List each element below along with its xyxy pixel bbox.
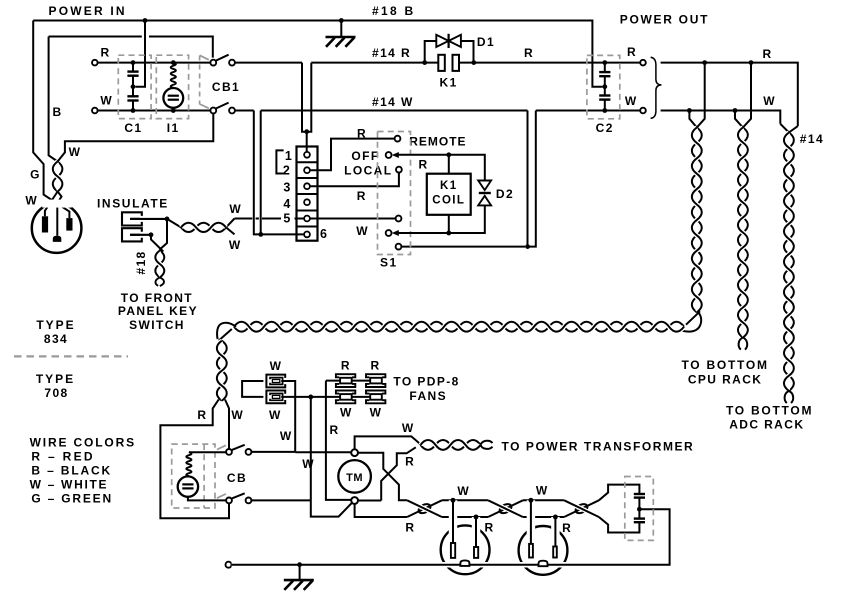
wire #14R drop loop to terminal 1 — [302, 63, 311, 132]
wire W to outlet2 — [523, 499, 564, 501]
svg-text:D2: D2 — [496, 187, 514, 201]
svg-text:#14 R: #14 R — [372, 46, 411, 60]
twisted pair down to key switch — [151, 219, 167, 253]
disconnect lug lower — [122, 228, 142, 241]
wire ground bus — [232, 562, 670, 568]
TM bottom terminal — [351, 497, 358, 504]
twisted pair to CB (drop) — [689, 63, 704, 128]
svg-text:W: W — [280, 429, 293, 443]
svg-text:G – GREEN: G – GREEN — [31, 491, 113, 505]
svg-text:R: R — [371, 359, 381, 373]
wire between bottom connectors — [352, 396, 370, 398]
wire R out bus — [661, 63, 798, 127]
svg-text:OFF: OFF — [351, 149, 379, 163]
diode D2 (bidirectional) — [478, 181, 491, 191]
wire terminal2 to REMOTE — [310, 139, 395, 171]
svg-text:G: G — [30, 168, 41, 182]
svg-text:R: R — [762, 47, 772, 61]
junction dot #18B to C1 midpoint — [143, 18, 148, 23]
svg-text:W: W — [625, 94, 638, 108]
svg-text:W: W — [100, 93, 113, 107]
fan connector J1 lower — [266, 391, 285, 404]
svg-text:COIL: COIL — [432, 194, 465, 206]
lamp I1 filament lead — [171, 63, 176, 88]
svg-text:B – BLACK: B – BLACK — [31, 463, 112, 477]
wire W to outlet1 — [442, 499, 488, 501]
svg-text:R: R — [627, 45, 637, 59]
outlet receptacle 2 — [519, 526, 568, 575]
dashed box filter capacitor — [625, 477, 654, 541]
capacitor C2 (two in series) — [604, 63, 606, 73]
svg-text:I1: I1 — [167, 121, 180, 135]
wire lug upper to node — [130, 218, 167, 220]
CB lamp filament — [186, 452, 191, 476]
ground symbol top — [340, 21, 342, 38]
wire #14R to C2 and R out — [459, 62, 640, 64]
junction dot ground — [297, 562, 302, 567]
dashed box around I1 — [156, 55, 188, 118]
CB lamp wires — [189, 451, 226, 453]
twisted pair long horizontal run — [234, 322, 684, 332]
svg-text:TM: TM — [346, 472, 363, 484]
wire B down to plug twist — [49, 37, 58, 162]
svg-text:W: W — [229, 202, 242, 216]
svg-text:POWER IN: POWER IN — [49, 4, 127, 18]
diode D1 bypass wire — [425, 41, 474, 63]
wire #14W from CB1 — [235, 110, 254, 112]
wire W from key pair to CB — [225, 400, 229, 449]
outlet2 wire drops — [527, 500, 536, 544]
dashed box S1 — [378, 132, 411, 255]
svg-text:R: R — [357, 126, 367, 140]
wire CB upper to fan connector — [251, 381, 295, 452]
svg-text:708: 708 — [44, 386, 68, 400]
wire G green from top frame to plug — [33, 21, 69, 219]
twisted pair to bottom ADC rack — [780, 124, 798, 133]
svg-text:6: 6 — [320, 227, 328, 241]
svg-text:R: R — [330, 423, 340, 437]
svg-text:834: 834 — [44, 332, 68, 346]
bracket terminals 1-2 — [276, 150, 283, 173]
wire insulate to terminal 5 — [235, 218, 305, 220]
twisted pair to bottom CPU rack — [735, 63, 751, 128]
svg-text:TO BOTTOM: TO BOTTOM — [726, 403, 813, 417]
fan connector J2 bottom-right — [366, 391, 385, 394]
svg-text:R: R — [562, 521, 572, 535]
wire crossover TM bottom to transformer R — [358, 447, 416, 500]
svg-text:TO POWER TRANSFORMER: TO POWER TRANSFORMER — [502, 439, 695, 453]
svg-text:1: 1 — [285, 149, 293, 163]
TM meter body — [338, 460, 371, 493]
svg-text:CPU RACK: CPU RACK — [688, 372, 763, 386]
S1 contact pole2 wiper with arrow — [386, 230, 392, 236]
svg-text:CB: CB — [227, 471, 247, 485]
wire R to outlet2 — [523, 516, 564, 518]
CB1 upper pole contacts and blade — [210, 60, 216, 66]
svg-text:K1: K1 — [440, 180, 458, 192]
dashed divider — [14, 355, 128, 357]
svg-text:B: B — [52, 105, 62, 119]
wire TM top to CB feed — [295, 451, 351, 453]
crossover 1 — [407, 500, 442, 517]
wire between top connectors — [352, 380, 370, 382]
svg-text:R: R — [484, 521, 494, 535]
CB upper pole contacts and blade — [226, 449, 232, 455]
wire R fans feed — [326, 381, 351, 500]
S1 contact LOCAL — [396, 167, 402, 173]
fan connector J2 bottom-left — [336, 391, 355, 394]
S1 contact OFF with wiper arrow — [386, 152, 392, 158]
S1 contact REMOTE — [395, 136, 401, 142]
CB1 mechanical linkage dashed — [199, 56, 201, 105]
relay contact K1 — [438, 55, 445, 71]
outlet2 slots — [529, 544, 533, 558]
outlet1 ground notch — [460, 560, 469, 566]
twisted pair down to CB split — [217, 341, 227, 401]
svg-text:FANS: FANS — [409, 389, 447, 403]
wire W input line — [98, 110, 211, 112]
junction dots outlet taps — [451, 498, 456, 503]
svg-text:W: W — [763, 94, 776, 108]
svg-text:REMOTE: REMOTE — [409, 134, 466, 148]
wire crossover TM top to outlets W — [358, 453, 407, 501]
svg-text:R: R — [405, 521, 415, 535]
dashed box CB lamp — [172, 444, 215, 508]
svg-text:K1: K1 — [440, 76, 458, 90]
wire R input line — [98, 62, 211, 64]
crossover 3 — [564, 500, 599, 517]
svg-text:R: R — [418, 158, 428, 172]
S1 contact pole2 upper — [396, 216, 402, 222]
svg-text:W: W — [457, 484, 470, 498]
terminal W power in — [92, 108, 98, 114]
wire #14W continuing right — [261, 110, 528, 112]
terminal ground bus left — [226, 562, 232, 568]
plug P1 body circle — [32, 203, 82, 253]
ground symbol bottom — [299, 565, 301, 580]
terminal strip TS1 — [297, 147, 318, 241]
twisted pair corner at left — [217, 323, 236, 341]
filter capacitor upper — [634, 493, 645, 495]
svg-text:R: R — [357, 189, 367, 203]
terminal W out — [640, 108, 646, 114]
svg-text:CB1: CB1 — [212, 80, 240, 94]
capacitor C1 (two in series) — [132, 63, 134, 72]
outlet1 slots — [451, 543, 455, 558]
wire #18B black power-in top line — [33, 21, 602, 87]
lamp I1 — [163, 88, 183, 108]
outlet receptacle 1 — [441, 525, 490, 574]
svg-text:#18: #18 — [134, 250, 148, 274]
wire #14W drop loop to terminal 6 — [254, 111, 261, 235]
svg-text:TO PDP-8: TO PDP-8 — [393, 375, 459, 389]
svg-text:#18 B: #18 B — [372, 4, 416, 18]
wire #14R from CB1 to terminal strip drop — [235, 62, 302, 64]
svg-text:C2: C2 — [596, 121, 614, 135]
crossover 2 — [488, 500, 523, 517]
twisted pair to power transformer — [421, 440, 481, 450]
svg-text:R: R — [405, 454, 415, 468]
dashed box around C1 — [118, 55, 151, 118]
svg-text:C1: C1 — [124, 121, 142, 135]
plug right prong — [66, 218, 72, 231]
svg-text:POWER OUT: POWER OUT — [620, 13, 709, 27]
svg-text:LOCAL: LOCAL — [344, 163, 392, 177]
fan connector J2 top-left — [336, 374, 355, 377]
svg-text:R: R — [197, 408, 207, 422]
wire R from key pair to CB — [160, 400, 229, 519]
wire R outlets from TM bottom — [355, 504, 408, 517]
fan connector U loop — [242, 381, 263, 397]
svg-text:5: 5 — [283, 212, 291, 226]
CB lower pole contacts and blade — [226, 498, 232, 504]
svg-text:SWITCH: SWITCH — [129, 318, 185, 332]
svg-text:W: W — [269, 408, 282, 422]
wire K1 coil top rail — [398, 155, 485, 181]
svg-text:ADC RACK: ADC RACK — [729, 418, 804, 432]
outlet2 ground notch — [539, 561, 548, 567]
wire B black frame line — [49, 37, 213, 58]
wire terminal 6 link — [261, 233, 304, 235]
wire J1 lower to fans W bus — [281, 396, 340, 398]
terminal R out — [640, 60, 646, 66]
twisted pair corner into horizontal run — [682, 311, 701, 331]
plug center pin — [53, 236, 62, 242]
wire lug lower to node — [130, 234, 151, 236]
svg-text:R: R — [100, 46, 110, 60]
svg-text:W: W — [231, 408, 244, 422]
wire #14R continuing right — [311, 62, 438, 64]
dashed box around C2 — [587, 55, 620, 118]
svg-text:TO BOTTOM: TO BOTTOM — [681, 358, 768, 372]
outlet1 wire drops — [449, 500, 458, 543]
fan connector J1 upper — [266, 375, 285, 388]
svg-text:2: 2 — [283, 164, 291, 178]
diode D1 (bidirectional) — [436, 35, 448, 47]
wire R to outlet1 — [442, 516, 488, 518]
wire W bus down to CB lower — [311, 397, 352, 517]
CB1 lower pole contacts and blade — [210, 108, 216, 114]
K1 coil box — [427, 174, 471, 215]
TM top terminal — [351, 449, 358, 456]
wire terminal3 to LOCAL — [310, 173, 399, 187]
wire S1 lower to W net — [401, 246, 525, 248]
svg-text:R – RED: R – RED — [31, 449, 94, 463]
svg-text:TYPE: TYPE — [36, 372, 75, 386]
plug left prong W — [42, 216, 48, 232]
disconnect lug upper — [122, 212, 142, 225]
svg-text:PANEL KEY: PANEL KEY — [118, 304, 198, 318]
K1 coil leads — [448, 155, 450, 174]
wire W cord from CB1 to plug twist — [58, 114, 214, 162]
svg-text:D1: D1 — [477, 35, 495, 49]
wire #18B drop to C1 midpoint — [136, 21, 146, 87]
wire #14W right section to W out — [536, 110, 640, 112]
filter cap mid link — [638, 498, 640, 519]
wire W twist to left prong — [45, 192, 58, 217]
wire W out bus — [661, 111, 781, 124]
svg-text:W: W — [25, 193, 38, 207]
twisted pair B/W above plug — [53, 162, 63, 192]
wire TM top to transformer pair W — [355, 436, 421, 449]
svg-text:#14: #14 — [800, 132, 824, 146]
svg-text:TYPE: TYPE — [36, 318, 75, 332]
wire #14W loop down to S1 node — [528, 111, 536, 247]
svg-text:W: W — [270, 359, 283, 373]
svg-text:W: W — [370, 406, 383, 420]
junction dot at ground tap — [339, 18, 344, 23]
fan connector J2 top-right — [366, 374, 385, 377]
svg-text:W: W — [302, 457, 315, 471]
svg-text:W – WHITE: W – WHITE — [30, 477, 109, 491]
svg-text:W: W — [536, 484, 549, 498]
CB lamp — [178, 476, 198, 496]
svg-text:WIRE COLORS: WIRE COLORS — [30, 435, 136, 449]
svg-text:W: W — [402, 421, 415, 435]
wire terminal5 to S1 — [310, 218, 396, 220]
svg-text:R: R — [524, 46, 534, 60]
svg-text:3: 3 — [283, 181, 291, 195]
svg-text:W: W — [340, 406, 353, 420]
svg-text:W: W — [229, 238, 242, 252]
svg-text:S1: S1 — [380, 255, 397, 269]
twisted pair insulate horizontal — [167, 219, 235, 235]
wires into filter box — [599, 485, 640, 501]
svg-text:INSULATE: INSULATE — [97, 196, 169, 210]
wire K1 coil bottom rail — [398, 206, 485, 234]
svg-text:W: W — [356, 224, 369, 238]
S1 contact pole2 lower — [396, 244, 402, 250]
svg-text:W: W — [69, 145, 82, 159]
filter capacitor lower — [634, 517, 645, 519]
svg-text:#14 W: #14 W — [372, 95, 414, 109]
svg-text:R: R — [341, 359, 351, 373]
svg-text:TO FRONT: TO FRONT — [121, 291, 193, 305]
terminal strip screws — [304, 152, 310, 158]
CB linkage diagonals — [217, 445, 226, 449]
wire B twist to center pin — [57, 192, 61, 236]
cable brace — [651, 57, 662, 118]
svg-text:4: 4 — [283, 197, 291, 211]
terminal R power in — [92, 60, 98, 66]
